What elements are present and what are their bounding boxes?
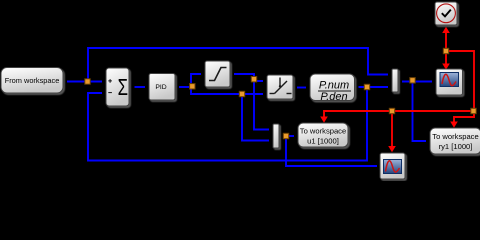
- svg-text:P.num: P.num: [319, 80, 349, 92]
- svg-text:To workspace: To workspace: [300, 127, 346, 136]
- svg-text:To workspace: To workspace: [432, 132, 478, 141]
- svg-text:From workspace: From workspace: [5, 76, 60, 85]
- svg-text:ry1 [1000]: ry1 [1000]: [439, 142, 473, 151]
- svg-text:P.den: P.den: [320, 91, 347, 103]
- svg-text:u1 [1000]: u1 [1000]: [307, 137, 339, 146]
- svg-text:Σ: Σ: [118, 76, 128, 101]
- svg-text:PID: PID: [155, 84, 166, 91]
